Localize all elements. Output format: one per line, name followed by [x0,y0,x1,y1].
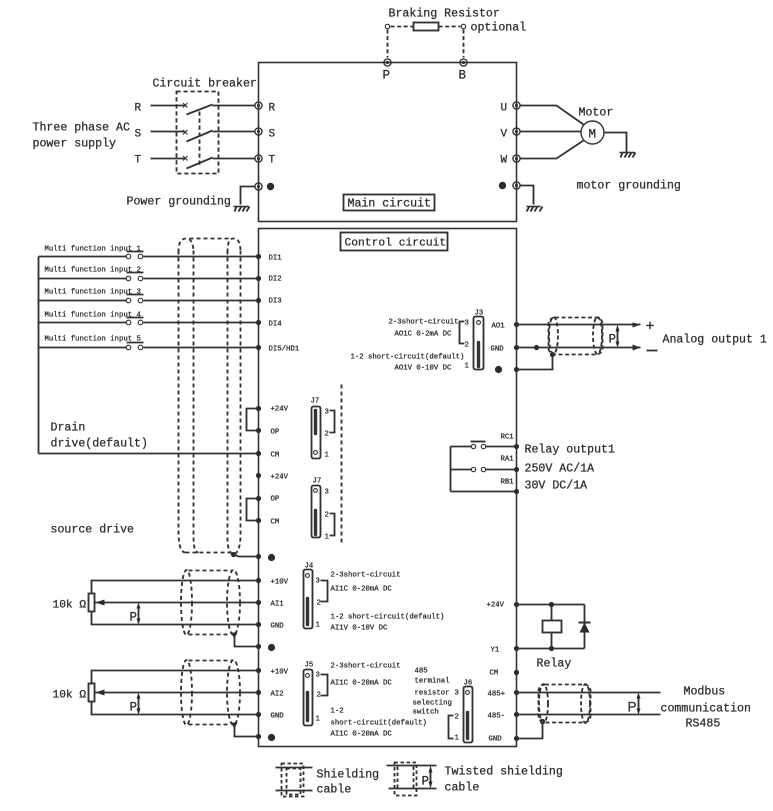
svg-text:P: P [130,701,138,715]
PE dot RP1 [268,644,275,651]
svg-text:terminal: terminal [415,678,450,686]
breaker pole S contact x [183,130,188,135]
svg-text:AI1V 0-10V DC: AI1V 0-10V DC [331,625,389,633]
breaker pole S blade [187,131,213,142]
svg-text:cable: cable [445,782,480,795]
terminal RC1 [514,444,519,449]
svg-text:AI1: AI1 [271,601,285,609]
svg-text:T: T [135,155,142,167]
switch K4 [126,320,131,325]
svg-text:Main circuit: Main circuit [348,198,432,211]
wire 485- [517,714,661,716]
ground motor [620,152,635,154]
GND junction dot [534,345,539,350]
breaker pole T blade [187,158,213,169]
potentiometer RP2 10k [89,684,95,702]
wire input 5 [39,347,259,349]
terminal AI1 [256,600,261,605]
svg-text:M: M [589,128,597,142]
wire T in [151,158,185,160]
wire dashed down to B [463,30,465,58]
node left of braking resistor [385,24,389,28]
terminal CM b [256,518,261,523]
svg-text:+24V: +24V [487,602,505,610]
svg-text:source drive: source drive [51,524,135,537]
wire AI1 [95,602,259,604]
diode D1 [579,622,591,624]
svg-text:3: 3 [316,578,320,586]
svg-text:10k Ω: 10k Ω [53,690,87,702]
svg-text:AI1C 0-20mA DC: AI1C 0-20mA DC [331,586,393,594]
svg-text:10k Ω: 10k Ω [53,600,87,612]
ground power [234,206,249,208]
svg-text:drive(default): drive(default) [51,438,148,451]
svg-text:J7: J7 [311,398,320,406]
svg-text:CM: CM [271,519,280,527]
terminal R [255,102,262,109]
control circuit label box [341,233,448,251]
shield tube RP2 [181,660,240,725]
wire GND out [517,347,641,349]
terminal DI2 [256,276,261,281]
svg-text:GND: GND [491,346,505,354]
wire motor to ground [604,133,627,153]
svg-text:RA1: RA1 [501,456,515,464]
terminal AO1 [514,322,519,327]
svg-text:RS485: RS485 [686,718,721,731]
svg-text:+24V: +24V [271,474,289,482]
terminal T [255,155,262,162]
svg-text:RB1: RB1 [501,479,515,487]
terminal AI2 [256,690,261,695]
svg-text:GND: GND [489,736,503,744]
wire W to motor [521,141,584,159]
svg-text:Circuit breaker: Circuit breaker [153,78,257,91]
svg-text:+10V: +10V [271,669,289,677]
svg-text:2: 2 [455,714,459,722]
svg-text:Motor: Motor [579,107,614,120]
AO shield tube [549,317,603,355]
terminal GND ao [514,345,519,350]
terminal DI4 [256,320,261,325]
wire RC1 [451,446,517,448]
switch K2 [126,276,131,281]
svg-text:J7: J7 [313,478,322,486]
motor M1 [581,121,604,144]
wire R in [151,105,185,107]
relay contact RC1 [471,444,475,448]
svg-text:P: P [609,333,617,347]
wire AI2 [95,692,259,694]
relay output left bus [450,447,452,492]
braking resistor R [414,23,439,31]
svg-text:Twisted shielding: Twisted shielding [445,766,563,779]
wire +10V [92,581,259,594]
svg-text:1: 1 [316,716,321,724]
wire V to motor [521,131,581,133]
svg-text:1: 1 [325,452,330,460]
svg-text:CM: CM [271,452,280,460]
wire U to motor [521,106,584,125]
terminal 485- [514,712,519,717]
svg-text:AO1: AO1 [492,323,506,331]
wire GND [92,612,259,625]
relay contact RA1 [471,467,475,471]
node right of braking resistor [461,24,465,28]
wire AO1 out [517,324,641,326]
wire input 3 [39,300,259,302]
switch K5 [126,345,131,350]
svg-text:+24V: +24V [271,406,289,414]
svg-text:communication: communication [661,703,751,716]
svg-text:RC1: RC1 [501,434,515,442]
control circuit box [259,229,517,747]
svg-text:CM: CM [490,670,499,678]
485 shield tube [539,684,591,723]
wire +24V relay [517,604,585,606]
wire relay right [584,605,586,649]
svg-text:B: B [459,69,467,83]
svg-text:motor grounding: motor grounding [577,180,681,193]
svg-text:2: 2 [317,600,321,608]
terminal PE left [255,183,262,190]
terminal Y1 [514,646,519,651]
svg-text:Braking Resistor: Braking Resistor [389,8,500,21]
minus label [647,350,658,352]
svg-text:Y1: Y1 [491,647,500,655]
terminal 485+ [514,690,519,695]
svg-text:2-3short-circuit: 2-3short-circuit [331,572,401,580]
main circuit label box [344,195,435,211]
wire dashed right of resistor [439,26,461,28]
485 shield junction [540,719,545,724]
relay coil K1 [551,605,553,649]
wire PE right to ground [521,186,534,205]
drain drive bracket +24V-OP [247,409,259,431]
switch K1 [126,254,131,259]
svg-text:1-2: 1-2 [331,708,344,716]
svg-text:AI1C 0-20mA DC: AI1C 0-20mA DC [331,731,393,739]
PE dot left [267,183,274,190]
svg-text:R: R [135,103,142,115]
svg-text:30V DC/1A: 30V DC/1A [525,480,588,493]
svg-text:J5: J5 [305,662,314,670]
svg-text:DI4: DI4 [269,321,283,329]
svg-text:1-2 short-circuit(default): 1-2 short-circuit(default) [331,614,445,622]
svg-text:3: 3 [316,672,320,680]
svg-text:1: 1 [455,735,460,743]
svg-text:OP: OP [271,429,280,437]
svg-text:power supply: power supply [33,138,117,151]
svg-text:2-3short-circuit: 2-3short-circuit [389,319,459,327]
svg-text:+: + [646,319,655,336]
terminal shield RP2 [256,734,261,739]
dashed separator [341,385,343,545]
svg-text:2: 2 [325,512,329,520]
svg-text:Multi function input 3: Multi function input 3 [45,289,141,297]
shield arrow RP2 [231,723,238,729]
terminal +24V b [256,473,261,478]
ground inverter right [527,206,541,208]
svg-text:R: R [269,103,276,115]
breaker pole R blade [187,105,213,115]
svg-text:Modbus: Modbus [684,686,726,699]
svg-text:resistor: resistor [415,690,450,698]
svg-text:1: 1 [465,363,470,371]
svg-text:3: 3 [325,409,329,417]
terminal DI5/HD1 [256,345,261,350]
svg-text:P: P [130,611,138,625]
terminal shield RP1 [256,644,261,649]
svg-text:3: 3 [325,489,329,497]
svg-text:Power grounding: Power grounding [127,196,231,209]
P arrow RP1 [138,606,140,623]
PE dot ao [495,366,502,373]
svg-text:1: 1 [316,622,321,630]
svg-text:485-: 485- [488,713,506,721]
svg-text:S: S [135,129,142,141]
wire T to terminal [213,158,255,160]
wire Y1 relay [517,648,585,650]
legend shielding cable symbol [282,764,304,797]
svg-text:AO1V 0-10V DC: AO1V 0-10V DC [395,365,453,373]
terminal OP a [256,428,261,433]
svg-text:V: V [501,129,508,141]
svg-text:2: 2 [317,692,321,700]
terminal shield ao [514,367,519,372]
PE dot DI shield [268,554,275,561]
breaker linkage dashed [199,112,201,168]
svg-text:485: 485 [415,668,428,676]
terminal +24V relay [514,602,519,607]
potentiometer RP1 10k [89,594,95,612]
terminal +10V [256,668,261,673]
terminal B [460,59,467,66]
terminal shield DI [256,554,261,559]
wire CM drain (long) [39,453,259,455]
terminal PE right [513,182,520,189]
terminal DI3 [256,298,261,303]
shield tube RP1 [181,570,240,635]
P arrow RP2 [138,696,140,713]
svg-text:3: 3 [465,320,469,328]
PE dot RP2 [268,734,275,741]
wire S in [151,131,185,133]
wire input 4 [39,322,259,324]
main circuit box [259,63,517,222]
terminal GND RP2 [256,712,261,717]
svg-text:Multi function input 2: Multi function input 2 [45,267,141,275]
svg-text:+10V: +10V [271,579,289,587]
wire R to terminal [213,105,255,107]
svg-text:S: S [269,129,276,141]
terminal DI1 [256,254,261,259]
svg-text:250V AC/1A: 250V AC/1A [525,463,595,476]
wire input 1 [39,256,259,258]
terminal V [513,128,520,135]
svg-text:DI3: DI3 [269,298,282,306]
wire RA1 [451,469,517,471]
terminal +24V a [256,406,261,411]
svg-text:OP: OP [271,496,280,504]
svg-text:2: 2 [465,342,469,350]
svg-text:AI2: AI2 [271,691,284,699]
wire dashed down to P [387,30,389,58]
svg-text:Shielding: Shielding [317,769,380,782]
svg-text:DI2: DI2 [269,276,282,284]
svg-text:GND: GND [271,713,285,721]
svg-text:selecting: selecting [413,700,452,708]
svg-text:Analog output 1: Analog output 1 [663,334,767,347]
shield arrow RP1 [231,633,238,639]
P arrow AO [617,329,619,345]
terminal CM relay [514,670,519,675]
svg-text:Relay: Relay [537,658,572,671]
PE dot right [499,182,506,189]
breaker pole R contact x [183,103,188,108]
svg-text:Control circuit: Control circuit [345,238,447,250]
DI shield tube [179,239,241,555]
terminal U [513,102,520,109]
svg-text:2-3short-circuit: 2-3short-circuit [331,663,401,671]
P arrow 485 [638,696,640,713]
wire input 2 [39,278,259,280]
wire PE to ground [241,187,255,205]
svg-text:cable: cable [317,784,352,797]
svg-text:DI1: DI1 [269,255,283,263]
AO shield junction [550,352,555,357]
legend P arrow [430,769,432,786]
legend twisted shielding symbol [395,763,417,796]
terminal RB1 [514,489,519,494]
svg-text:2: 2 [325,431,329,439]
svg-text:P: P [422,775,430,789]
wire 485+ [517,692,661,694]
left input bus [38,257,40,454]
svg-text:Multi function input 5: Multi function input 5 [45,336,141,344]
terminal GND RP1 [256,622,261,627]
svg-text:P: P [383,69,391,83]
terminal +10V [256,578,261,583]
wire GND 485 shield [517,723,543,739]
terminal W [513,155,520,162]
svg-text:1: 1 [325,534,330,542]
wire S to terminal [213,131,255,133]
svg-text:Drain: Drain [51,422,86,435]
circuit breaker dashed box [177,92,219,174]
wire +10V [92,671,259,684]
source drive bracket OP-CM [247,499,259,521]
wire AO shield to terminal [517,355,553,370]
svg-text:1-2 short-circuit(default): 1-2 short-circuit(default) [351,354,465,362]
terminal CM a [256,451,261,456]
DI shield junction [231,552,236,557]
svg-text:optional: optional [471,22,527,35]
switch K3 [126,298,131,303]
svg-text:AO1C 0-2mA DC: AO1C 0-2mA DC [395,331,453,339]
wire shield to terminal [234,555,259,557]
svg-text:P: P [628,700,637,715]
svg-text:U: U [501,103,508,115]
svg-text:short-circuit(default): short-circuit(default) [331,720,427,728]
wire dashed left of resistor [391,26,414,28]
svg-text:GND: GND [271,623,285,631]
svg-text:3: 3 [455,690,459,698]
terminal OP b [256,496,261,501]
svg-text:AI1C 0-20mA DC: AI1C 0-20mA DC [331,680,393,688]
svg-text:T: T [269,155,276,167]
svg-text:DI5/HD1: DI5/HD1 [269,346,300,354]
svg-text:W: W [501,155,508,167]
svg-text:switch: switch [413,709,439,717]
terminal S [255,128,262,135]
terminal P [384,59,391,66]
terminal RA1 [514,467,519,472]
svg-text:Three phase AC: Three phase AC [33,122,130,135]
svg-text:485+: 485+ [488,691,506,699]
wire GND [92,702,259,715]
terminal GND 485 [514,736,519,741]
wire RB1 [451,491,517,493]
breaker pole T contact x [183,156,188,161]
svg-text:Relay output1: Relay output1 [525,444,615,457]
